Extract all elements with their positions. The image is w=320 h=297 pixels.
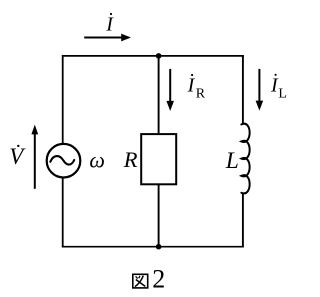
wire top [62,55,244,57]
svg-text:R: R [123,147,138,172]
label I-dot top [105,13,114,36]
node junction dot top [156,53,162,59]
caption figure 2 kanji zu [133,274,148,288]
svg-text:I: I [187,74,196,96]
node junction dot bottom [156,244,162,250]
svg-text:ω: ω [89,147,105,172]
inductor L1 coil [241,124,249,194]
svg-text:L: L [225,148,239,174]
label V-dot [9,144,26,169]
svg-text:I: I [105,14,114,36]
label I-dot R [187,74,206,102]
resistor R1 body [141,134,176,184]
svg-text:L: L [278,86,287,101]
svg-text:V: V [9,144,26,169]
svg-text:R: R [196,87,206,102]
wire right vertical upper [242,55,244,124]
source V1 sine symbol [50,156,74,165]
arrow current IL (downward) [256,69,264,111]
label I-dot L [270,74,287,102]
arrow current I (top, rightward) [84,34,131,42]
wire middle vertical lower [158,184,160,246]
arrow voltage V (upward) [31,125,38,189]
wire left vertical upper [62,55,64,143]
source V1 circle [47,144,81,178]
wire right vertical lower [242,193,244,248]
wire middle vertical upper [158,56,160,134]
wire left vertical lower [62,178,64,248]
svg-text:2: 2 [152,265,165,294]
wire bottom [62,246,244,248]
arrow current IR (downward) [166,69,174,111]
